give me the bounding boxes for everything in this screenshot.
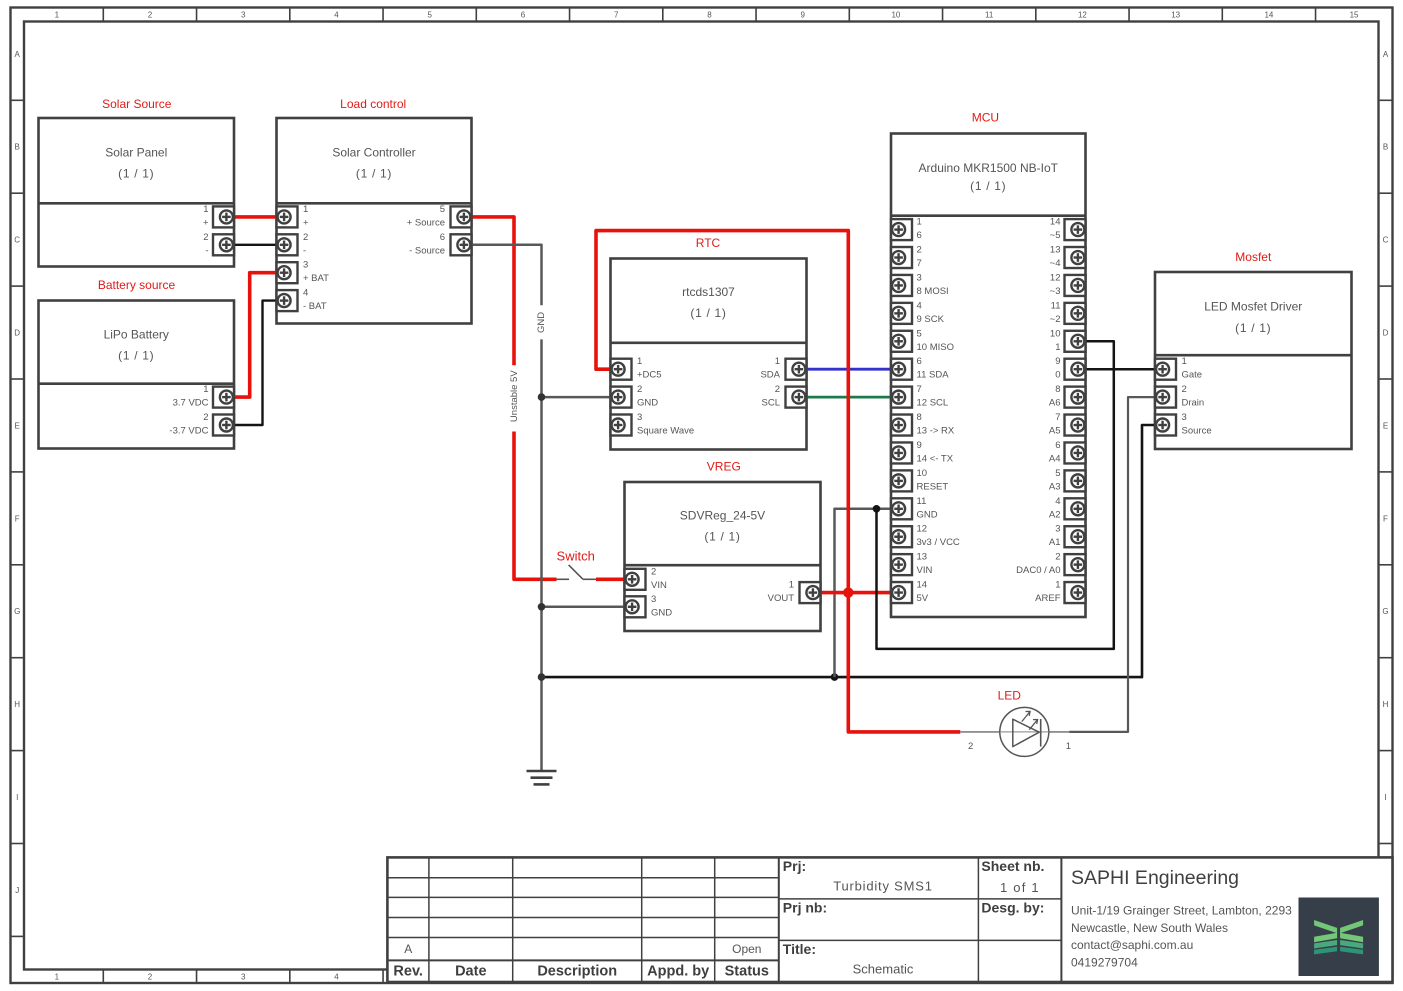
svg-text:- Source: - Source xyxy=(409,245,445,256)
mosfet pin 2 Drain xyxy=(1155,387,1176,408)
svg-text:8: 8 xyxy=(1055,384,1060,395)
svg-text:LED: LED xyxy=(998,689,1022,703)
svg-text:1: 1 xyxy=(203,384,208,395)
svg-text:Unstable 5V: Unstable 5V xyxy=(509,370,520,422)
svg-text:5: 5 xyxy=(440,204,445,215)
svg-text:(1 / 1): (1 / 1) xyxy=(118,349,154,363)
MCU right pin 6 A4 xyxy=(1065,442,1086,463)
MCU right pin 1 AREF xyxy=(1065,582,1086,603)
svg-text:10: 10 xyxy=(891,11,900,20)
svg-text:A: A xyxy=(15,50,21,59)
svg-text:4: 4 xyxy=(917,300,922,311)
svg-text:2: 2 xyxy=(148,973,153,982)
controller pin 4 - BAT xyxy=(277,290,298,311)
VREG pin 1 VOUT xyxy=(800,582,821,603)
svg-text:D: D xyxy=(1383,329,1389,338)
svg-text:Desg. by:: Desg. by: xyxy=(981,900,1044,916)
svg-text:+: + xyxy=(203,217,209,228)
svg-text:9 SCK: 9 SCK xyxy=(917,314,945,325)
svg-text:rtcds1307: rtcds1307 xyxy=(682,285,735,299)
svg-text:B: B xyxy=(15,143,20,152)
MCU left pin 14 5V xyxy=(891,582,912,603)
VREG pin 3 GND xyxy=(625,596,646,617)
MCU right pin 8 A6 xyxy=(1065,387,1086,408)
svg-text:J: J xyxy=(15,886,19,895)
MCU right pin 7 A5 xyxy=(1065,415,1086,436)
svg-text:12 SCL: 12 SCL xyxy=(917,398,949,409)
wire GND rail to RTC GND (grey) xyxy=(542,396,611,399)
svg-text:Newcastle, New South Wales: Newcastle, New South Wales xyxy=(1071,921,1228,935)
switch S1 (open SPST) xyxy=(557,565,597,579)
svg-text:7: 7 xyxy=(614,11,619,20)
voltage regulator SDVReg_24-5V module xyxy=(625,482,821,631)
svg-text:Unit-1/19 Grainger Street, Lam: Unit-1/19 Grainger Street, Lambton, 2293 xyxy=(1071,904,1292,918)
MCU left pin 7 12 SCL xyxy=(891,387,912,408)
svg-text:8 MOSI: 8 MOSI xyxy=(917,286,949,297)
svg-text:Date: Date xyxy=(455,964,486,980)
controller pin 6 - Source xyxy=(451,234,472,255)
svg-text:12: 12 xyxy=(1050,272,1061,283)
svg-text:3: 3 xyxy=(917,272,922,283)
svg-text:LiPo Battery: LiPo Battery xyxy=(104,328,169,342)
svg-text:Gate: Gate xyxy=(1182,370,1203,381)
MCU left pin 10 RESET xyxy=(891,470,912,491)
svg-text:6: 6 xyxy=(917,230,922,241)
svg-text:1: 1 xyxy=(303,204,308,215)
svg-text:Turbidity SMS1: Turbidity SMS1 xyxy=(833,879,933,894)
svg-text:4: 4 xyxy=(334,973,339,982)
junction GND rail / VREG GND xyxy=(538,603,546,611)
svg-text:LED Mosfet Driver: LED Mosfet Driver xyxy=(1204,299,1302,313)
svg-text:MCU: MCU xyxy=(972,111,999,125)
MCU right pin 12 ~3 xyxy=(1065,275,1086,296)
svg-text:C: C xyxy=(1383,236,1389,245)
svg-text:14: 14 xyxy=(1050,217,1061,228)
svg-text:6: 6 xyxy=(521,11,526,20)
svg-text:10: 10 xyxy=(917,468,928,479)
svg-text:3: 3 xyxy=(1055,524,1060,535)
svg-text:6: 6 xyxy=(1055,440,1060,451)
svg-text:SDA: SDA xyxy=(760,370,780,381)
svg-text:0: 0 xyxy=(1055,370,1060,381)
svg-text:RESET: RESET xyxy=(917,481,949,492)
LiPo battery module xyxy=(39,301,235,449)
solar panel module xyxy=(39,118,235,267)
solar panel pin 2 - xyxy=(213,234,234,255)
svg-text:B: B xyxy=(1383,143,1388,152)
MCU right pin 9 0 xyxy=(1065,359,1086,380)
svg-text:A4: A4 xyxy=(1049,453,1061,464)
svg-text:(1 / 1): (1 / 1) xyxy=(704,530,740,544)
solar controller module xyxy=(277,118,472,324)
svg-text:E: E xyxy=(15,421,20,430)
MCU left pin 11 GND xyxy=(891,498,912,519)
svg-text:Appd. by: Appd. by xyxy=(647,964,709,980)
MCU right pin 14 ~5 xyxy=(1065,219,1086,240)
svg-text:4: 4 xyxy=(303,288,308,299)
svg-text:-: - xyxy=(205,245,208,256)
svg-text:F: F xyxy=(1383,514,1388,523)
svg-text:~4: ~4 xyxy=(1050,258,1061,269)
MCU left pin 4 9 SCK xyxy=(891,303,912,324)
svg-text:14 <- TX: 14 <- TX xyxy=(917,453,954,464)
wire solar panel + to controller + (red) xyxy=(234,215,277,219)
wire bottom GND rail to mosfet Source (black) xyxy=(542,425,1156,677)
junction 5V net (red) xyxy=(843,587,853,597)
svg-text:(1 / 1): (1 / 1) xyxy=(1235,321,1271,335)
svg-text:+ Source: + Source xyxy=(407,217,445,228)
MCU right pin 5 A3 xyxy=(1065,470,1086,491)
SAPHI logo xyxy=(1299,898,1379,977)
svg-text:Sheet nb.: Sheet nb. xyxy=(981,858,1044,874)
svg-text:SAPHI Engineering: SAPHI Engineering xyxy=(1071,867,1239,889)
svg-text:G: G xyxy=(1382,607,1388,616)
svg-text:-3.7 VDC: -3.7 VDC xyxy=(169,426,208,437)
MCU right pin 2 DAC0 / A0 xyxy=(1065,554,1086,575)
svg-text:1: 1 xyxy=(789,580,794,591)
svg-text:9: 9 xyxy=(917,440,922,451)
LED leads (thin grey) xyxy=(960,731,1000,733)
svg-text:2: 2 xyxy=(148,11,153,20)
svg-text:2: 2 xyxy=(775,384,780,395)
svg-text:8: 8 xyxy=(707,11,712,20)
svg-text:5: 5 xyxy=(427,11,432,20)
MCU right pin 4 A2 xyxy=(1065,498,1086,519)
svg-text:1: 1 xyxy=(1182,356,1187,367)
svg-text:contact@saphi.com.au: contact@saphi.com.au xyxy=(1071,938,1193,952)
svg-text:Source: Source xyxy=(1182,426,1212,437)
revision table header xyxy=(393,964,769,980)
controller pin 2 - xyxy=(277,234,298,255)
svg-text:3: 3 xyxy=(1182,412,1187,423)
svg-text:SCL: SCL xyxy=(762,398,780,409)
svg-text:Solar Panel: Solar Panel xyxy=(105,146,167,160)
svg-text:VIN: VIN xyxy=(917,565,933,576)
svg-text:9: 9 xyxy=(800,11,805,20)
svg-text:A: A xyxy=(1383,50,1389,59)
svg-text:5V: 5V xyxy=(917,593,929,604)
RTC pin 2 GND xyxy=(611,387,632,408)
svg-text:Schematic: Schematic xyxy=(853,962,914,977)
svg-text:Mosfet: Mosfet xyxy=(1235,250,1272,264)
wire MCU pin 1 loop to GND junction (black) xyxy=(877,341,1114,649)
svg-text:1: 1 xyxy=(1055,580,1060,591)
wire VREG VOUT to MCU 5V (red) xyxy=(821,591,892,595)
svg-text:Solar Controller: Solar Controller xyxy=(332,146,415,160)
wire switch to VREG VIN (red) xyxy=(596,577,625,581)
RTC pin 3 Square Wave xyxy=(611,415,632,436)
mosfet pin 3 Source xyxy=(1155,415,1176,436)
svg-text:1: 1 xyxy=(55,11,60,20)
wire 5V net RTC +DC5 loop to LED anode (red) xyxy=(596,231,960,732)
svg-text:8: 8 xyxy=(917,412,922,423)
svg-text:13: 13 xyxy=(1050,245,1061,256)
svg-text:I: I xyxy=(1384,793,1386,802)
RTC pin 2 SCL (right) xyxy=(786,387,807,408)
svg-text:Battery source: Battery source xyxy=(98,278,176,292)
svg-text:14: 14 xyxy=(1264,11,1273,20)
LED mosfet driver module xyxy=(1155,272,1352,449)
svg-text:-: - xyxy=(303,245,306,256)
svg-text:(1 / 1): (1 / 1) xyxy=(690,306,726,320)
LED D1 symbol xyxy=(1000,707,1049,756)
svg-text:A5: A5 xyxy=(1049,426,1061,437)
svg-text:Load control: Load control xyxy=(340,97,406,111)
wire battery +3.7VDC to controller +BAT (red) xyxy=(234,273,277,397)
svg-text:5: 5 xyxy=(917,328,922,339)
controller pin 3 + BAT xyxy=(277,262,298,283)
svg-text:3v3 / VCC: 3v3 / VCC xyxy=(917,537,960,548)
MCU Arduino MKR1500 NB-IoT module xyxy=(891,134,1086,618)
svg-text:- BAT: - BAT xyxy=(303,301,327,312)
svg-text:9: 9 xyxy=(1055,356,1060,367)
svg-text:11: 11 xyxy=(917,496,927,507)
svg-text:13 -> RX: 13 -> RX xyxy=(917,426,955,437)
svg-text:Rev.: Rev. xyxy=(393,964,423,980)
svg-text:DAC0 / A0: DAC0 / A0 xyxy=(1016,565,1060,576)
svg-text:4: 4 xyxy=(334,11,339,20)
svg-text:A1: A1 xyxy=(1049,537,1061,548)
svg-text:A3: A3 xyxy=(1049,481,1061,492)
svg-text:D: D xyxy=(14,329,20,338)
MCU left pin 9 14 <- TX xyxy=(891,442,912,463)
svg-text:11 SDA: 11 SDA xyxy=(917,370,950,381)
svg-text:13: 13 xyxy=(1171,11,1180,20)
svg-text:4: 4 xyxy=(1055,496,1060,507)
svg-text:H: H xyxy=(14,700,20,709)
svg-text:1: 1 xyxy=(637,356,642,367)
battery pin 1 3.7 VDC xyxy=(213,387,234,408)
svg-text:+: + xyxy=(303,217,309,228)
svg-text:Switch: Switch xyxy=(557,549,595,564)
svg-text:11: 11 xyxy=(1051,300,1061,311)
svg-text:GND: GND xyxy=(651,607,672,618)
wire MCU pin 0 to mosfet Gate (black) xyxy=(1086,368,1156,371)
svg-text:A: A xyxy=(404,942,412,956)
MCU right pin 3 A1 xyxy=(1065,526,1086,547)
svg-text:5: 5 xyxy=(1055,468,1060,479)
svg-text:Solar Source: Solar Source xyxy=(102,97,172,111)
svg-text:A6: A6 xyxy=(1049,398,1061,409)
svg-text:2: 2 xyxy=(651,566,656,577)
svg-text:~3: ~3 xyxy=(1050,286,1061,297)
svg-text:~5: ~5 xyxy=(1050,230,1061,241)
company info SAPHI Engineering xyxy=(1071,867,1292,969)
junction MCU GND / pin-1 loop xyxy=(873,505,881,513)
svg-text:1: 1 xyxy=(775,356,780,367)
controller pin 1 + xyxy=(277,206,298,227)
MCU left pin 3 8 MOSI xyxy=(891,275,912,296)
svg-text:G: G xyxy=(14,607,20,616)
battery pin 2 -3.7 VDC xyxy=(213,415,234,436)
svg-text:13: 13 xyxy=(917,552,928,563)
wire mosfet Drain to LED cathode (grey) xyxy=(1069,397,1155,732)
MCU left pin 2 7 xyxy=(891,247,912,268)
svg-text:GND: GND xyxy=(917,509,938,520)
svg-text:Arduino MKR1500 NB-IoT: Arduino MKR1500 NB-IoT xyxy=(919,161,1059,175)
svg-text:Status: Status xyxy=(725,964,769,980)
svg-text:VREG: VREG xyxy=(707,459,741,473)
svg-text:Prj nb:: Prj nb: xyxy=(783,900,827,916)
svg-text:2: 2 xyxy=(968,741,973,752)
MCU left pin 12 3v3 / VCC xyxy=(891,526,912,547)
svg-text:3: 3 xyxy=(303,260,308,271)
svg-text:~2: ~2 xyxy=(1050,314,1061,325)
svg-text:SDVReg_24-5V: SDVReg_24-5V xyxy=(680,509,765,523)
MCU right pin 11 ~2 xyxy=(1065,303,1086,324)
svg-text:2: 2 xyxy=(917,245,922,256)
svg-text:2: 2 xyxy=(1055,552,1060,563)
wire battery -3.7VDC to controller -BAT (black) xyxy=(234,301,277,425)
wire RTC SCL to MCU 12 SCL (green) xyxy=(807,396,892,399)
svg-text:1: 1 xyxy=(1055,342,1060,353)
svg-text:12: 12 xyxy=(917,524,928,535)
wire solar panel - to controller - (black) xyxy=(234,244,277,246)
svg-text:14: 14 xyxy=(917,580,928,591)
svg-text:6: 6 xyxy=(440,232,445,243)
svg-text:12: 12 xyxy=(1078,11,1087,20)
wire MCU GND to bottom rail (grey) xyxy=(835,509,892,677)
svg-text:2: 2 xyxy=(203,232,208,243)
svg-text:F: F xyxy=(15,514,20,523)
svg-text:3: 3 xyxy=(637,412,642,423)
svg-text:1: 1 xyxy=(917,217,922,228)
MCU right pin 13 ~4 xyxy=(1065,247,1086,268)
junction GND rail / RTC GND xyxy=(538,393,546,401)
svg-text:7: 7 xyxy=(917,258,922,269)
svg-text:AREF: AREF xyxy=(1035,593,1061,604)
svg-text:+ BAT: + BAT xyxy=(303,273,329,284)
svg-text:Description: Description xyxy=(537,964,617,980)
svg-text:2: 2 xyxy=(203,412,208,423)
svg-text:6: 6 xyxy=(917,356,922,367)
svg-text:10 MISO: 10 MISO xyxy=(917,342,955,353)
svg-text:3.7 VDC: 3.7 VDC xyxy=(173,398,209,409)
svg-text:2: 2 xyxy=(303,232,308,243)
project fields xyxy=(783,858,1045,977)
svg-text:GND: GND xyxy=(536,312,547,333)
svg-text:Square Wave: Square Wave xyxy=(637,426,694,437)
MCU right pin 10 1 xyxy=(1065,331,1086,352)
svg-text:7: 7 xyxy=(1055,412,1060,423)
RTC rtcds1307 module xyxy=(611,259,807,450)
svg-text:1: 1 xyxy=(203,204,208,215)
RTC pin 1 +DC5 xyxy=(611,359,632,380)
svg-text:I: I xyxy=(16,793,18,802)
svg-text:1 of 1: 1 of 1 xyxy=(1000,880,1040,895)
svg-text:E: E xyxy=(1383,421,1388,430)
wire GND rail to VREG GND (grey) xyxy=(542,606,625,609)
svg-text:Prj:: Prj: xyxy=(783,858,806,874)
svg-text:VOUT: VOUT xyxy=(768,593,795,604)
svg-text:Open: Open xyxy=(732,942,761,956)
svg-text:VIN: VIN xyxy=(651,580,667,591)
VREG pin 2 VIN xyxy=(625,569,646,590)
MCU left pin 5 10 MISO xyxy=(891,331,912,352)
svg-text:A2: A2 xyxy=(1049,509,1061,520)
svg-text:0419279704: 0419279704 xyxy=(1071,955,1138,969)
MCU left pin 6 11 SDA xyxy=(891,359,912,380)
svg-text:GND: GND xyxy=(637,398,658,409)
svg-text:(1 / 1): (1 / 1) xyxy=(356,167,392,181)
svg-text:+DC5: +DC5 xyxy=(637,370,662,381)
svg-text:10: 10 xyxy=(1050,328,1061,339)
svg-text:11: 11 xyxy=(985,11,994,20)
svg-text:C: C xyxy=(14,236,20,245)
controller pin 5 + Source xyxy=(451,206,472,227)
solar panel pin 1 + xyxy=(213,206,234,227)
MCU left pin 1 6 xyxy=(891,219,912,240)
svg-text:7: 7 xyxy=(917,384,922,395)
svg-text:3: 3 xyxy=(241,973,246,982)
junction GND rail / bottom rail xyxy=(538,673,546,681)
mosfet pin 1 Gate xyxy=(1155,359,1176,380)
svg-text:(1 / 1): (1 / 1) xyxy=(118,167,154,181)
svg-text:15: 15 xyxy=(1350,11,1359,20)
wire - Source GND rail (grey) xyxy=(472,245,542,305)
title block xyxy=(387,857,1392,982)
svg-text:H: H xyxy=(1383,700,1389,709)
svg-text:RTC: RTC xyxy=(696,236,721,250)
svg-text:Drain: Drain xyxy=(1182,398,1205,409)
MCU left pin 8 13 -> RX xyxy=(891,415,912,436)
wire + Source Unstable 5V net (red) xyxy=(472,217,515,365)
junction bottom rail / MCU GND drop xyxy=(831,673,839,681)
svg-text:1: 1 xyxy=(1066,741,1071,752)
wire RTC SDA to MCU 11 SDA (blue) xyxy=(807,368,892,371)
svg-text:3: 3 xyxy=(241,11,246,20)
ground symbol xyxy=(527,771,557,784)
svg-text:2: 2 xyxy=(1182,384,1187,395)
svg-text:2: 2 xyxy=(637,384,642,395)
svg-text:(1 / 1): (1 / 1) xyxy=(970,179,1006,193)
MCU left pin 13 VIN xyxy=(891,554,912,575)
RTC pin 1 SDA (right) xyxy=(786,359,807,380)
svg-text:3: 3 xyxy=(651,594,656,605)
svg-text:1: 1 xyxy=(55,973,60,982)
svg-text:Title:: Title: xyxy=(783,941,816,957)
